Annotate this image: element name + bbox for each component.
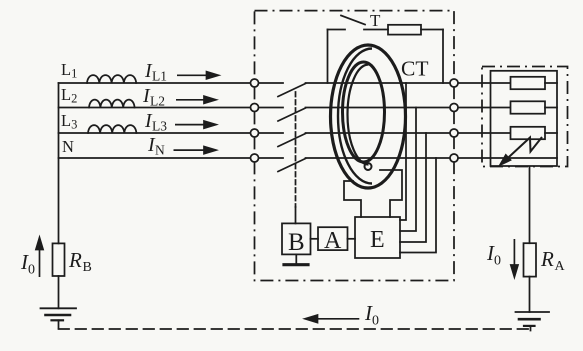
wire test branch riser left (327, 30, 329, 84)
node L2 right (450, 104, 458, 112)
resistor RA (524, 243, 537, 276)
arrow I_N (174, 149, 206, 151)
svg-text:A: A (555, 259, 566, 274)
node L2 left (251, 104, 259, 112)
ground left hook (58, 320, 60, 327)
ground right bar3 (524, 325, 535, 327)
node L3 left (251, 129, 259, 137)
load winding resistor 1 (511, 77, 546, 89)
svg-text:T: T (370, 11, 381, 30)
svg-text:0: 0 (494, 254, 501, 269)
wire tap L1 to E (400, 83, 406, 220)
svg-text:N: N (62, 137, 74, 156)
wire B to chassis (295, 254, 297, 263)
resistor test (rect) (388, 25, 421, 35)
arrow I0 bottom left (316, 318, 359, 320)
chassis bar under B (284, 263, 308, 266)
wire test branch top left (328, 29, 346, 31)
arrow I0 right down (513, 239, 515, 269)
wire RB to ground (58, 276, 60, 308)
secondary winding pedestal left (344, 181, 361, 217)
switch linkage dashed (295, 92, 297, 207)
switch blade L3 (278, 134, 306, 147)
svg-text:L2: L2 (150, 94, 165, 109)
wire resistor2 to star bus (545, 107, 557, 109)
wire resistor to right (421, 29, 443, 31)
arrow I_L1 (177, 74, 208, 76)
svg-text:A: A (324, 228, 342, 254)
node N left (251, 154, 259, 162)
switch blade N (278, 159, 306, 172)
wire line L3 right segment (306, 132, 511, 134)
toroid hole back rim (348, 65, 369, 165)
wire resistor1 to star bus (545, 82, 557, 84)
node L1 right (450, 79, 458, 87)
wire line L1 right segment (306, 82, 511, 84)
wire A to E (348, 238, 356, 240)
wire line L1 left segment (59, 82, 284, 84)
svg-text:CT: CT (401, 57, 428, 81)
current direction arrows (36, 72, 518, 323)
svg-text:B: B (83, 260, 92, 275)
ground left bar2 (46, 314, 71, 317)
ground right hook (530, 326, 532, 331)
secondary winding pedestal right (380, 170, 402, 217)
svg-text:N: N (155, 143, 165, 158)
wire line N left segment (59, 157, 284, 159)
load winding resistor 2 (511, 101, 546, 113)
dashed earth return path (59, 328, 531, 330)
wire line L2 right segment (306, 107, 511, 109)
ground left bar3 (52, 319, 64, 321)
ground right bar1 (516, 311, 550, 313)
ground left bar1 (41, 307, 77, 309)
node L3 right (450, 129, 458, 137)
wire line L3 left segment (59, 132, 284, 134)
node L1 left (251, 79, 259, 87)
svg-text:0: 0 (28, 263, 35, 278)
ground right bar2 (519, 318, 540, 321)
wire linkage to trip coil B (295, 207, 297, 223)
svg-text:E: E (370, 227, 385, 253)
arrow I_L3 (175, 124, 205, 126)
wire tap L3 to E (400, 133, 426, 242)
arrow I0 left up (39, 245, 41, 277)
svg-text:L1: L1 (152, 69, 167, 84)
switch blade L2 (278, 108, 306, 121)
node circles (251, 79, 459, 162)
wire test branch riser right (442, 30, 444, 84)
wire B to A (311, 238, 319, 240)
svg-text:R: R (540, 247, 554, 271)
svg-text:0: 0 (372, 314, 379, 329)
wire RA to ground (529, 277, 531, 312)
wire tap L2 to E (400, 108, 416, 232)
toroid outer front rim (338, 49, 372, 184)
switch blade T test button (341, 16, 365, 25)
dash-dot enclosure of load (right box) (482, 67, 568, 167)
box A (318, 227, 348, 250)
load winding resistor 3 (511, 127, 546, 139)
arrow I_L2 (176, 99, 205, 101)
electronics box E (355, 217, 400, 258)
wire resistor3 to star bus (545, 132, 557, 134)
resistor RB (53, 243, 65, 276)
svg-text:R: R (68, 248, 82, 272)
toroid outer ellipse (331, 45, 406, 188)
fault arrow (lightning bolt) (500, 137, 542, 165)
dash-dot enclosure of RCD (middle box) (255, 11, 455, 281)
toroid hole ellipse (343, 62, 385, 162)
wire tap N to E (400, 158, 436, 253)
svg-text:L3: L3 (152, 119, 167, 134)
wire load frame to RA (529, 167, 531, 244)
inductor winding L3 (88, 125, 136, 133)
load inner body rect (491, 71, 558, 166)
trip coil box B (282, 223, 311, 254)
inductor winding L2 (89, 100, 135, 108)
toroid winding loop dot (365, 163, 372, 170)
current transformer CT toroid (331, 45, 406, 188)
node N right (450, 154, 458, 162)
inductor winding L1 (87, 75, 136, 83)
wire line N right segment (306, 157, 558, 159)
switch blade L1 (278, 84, 306, 97)
wire line L2 left segment (59, 107, 284, 109)
wire left neutral-point bus (58, 83, 60, 243)
wire test to resistor (364, 29, 388, 31)
svg-text:B: B (288, 229, 305, 256)
